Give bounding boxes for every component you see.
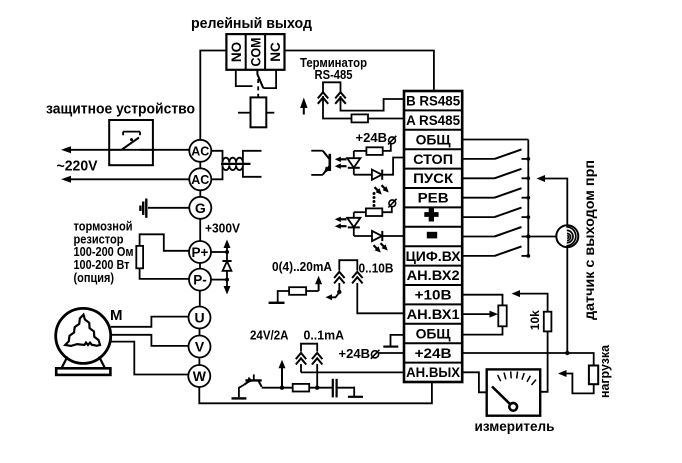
common symbol at ОБЩ row: [391, 335, 405, 347]
svg-text:защитное устройство: защитное устройство: [46, 102, 195, 118]
terminal P+: [189, 241, 211, 263]
svg-text:АН.ВЫХ: АН.ВЫХ: [406, 365, 460, 380]
wire: relay box left lead down to AC terminal: [200, 51, 226, 140]
chevron arrows of terminator: [318, 92, 328, 98]
wire: +24В row to load branch: [462, 353, 594, 366]
ground stub of current source: [269, 302, 285, 304]
wire: transistor collector line: [262, 387, 293, 389]
wire: resistor to +24V terminal point: [383, 144, 391, 151]
wire: opto LED 2 anode to resistor 2: [354, 211, 366, 213]
wire: resistor to node: [306, 290, 319, 292]
dashed link: contacts to relay coil: [257, 79, 259, 97]
wire: resistor to capacitor: [309, 387, 332, 389]
svg-text:M: M: [110, 307, 123, 324]
repetition dots: [373, 192, 376, 195]
wire: terminal column link: [199, 219, 201, 241]
wire: АН.ВЫХ to meter left terminal: [462, 372, 487, 392]
shunt resistor: [289, 287, 306, 295]
wire: opto LED anode to resistor: [354, 150, 367, 152]
switch for РЕВ input: [462, 197, 494, 199]
wire: terminal column link: [199, 291, 201, 307]
indicator LED 1: [354, 174, 372, 176]
svg-text:измеритель: измеритель: [475, 418, 555, 434]
arrow up at output node: [280, 386, 284, 390]
svg-text:ПУСК: ПУСК: [413, 171, 454, 186]
open terminal circle with slash (+24V): [389, 137, 396, 144]
svg-text:COM: COM: [248, 38, 263, 67]
diode on DC bus: [223, 261, 232, 271]
wire: P- to DC bus: [211, 279, 227, 281]
sensor with npn output (circle symbol): [556, 225, 578, 247]
wire: left chevron to terminator resistor: [323, 96, 352, 119]
arrow: RS-485 bus direction: [303, 104, 305, 115]
svg-text:0..10В: 0..10В: [359, 262, 394, 276]
open terminal circle with slash 2: [389, 200, 396, 207]
arrow up at current input: [318, 283, 320, 291]
svg-text:AC: AC: [191, 173, 209, 187]
svg-text:W: W: [193, 368, 207, 384]
light arrows into opto 2: [338, 218, 347, 220]
wire+arrow: ~220V phase line: [66, 149, 189, 151]
wire: right chevron to B RS485: [341, 96, 405, 111]
wire: sensor bottom to +24В line: [566, 247, 568, 353]
switch for - input: [462, 236, 494, 238]
wire: left chevron to junction: [338, 283, 340, 290]
terminal block frame: [404, 91, 462, 382]
svg-text:P-: P-: [193, 272, 207, 287]
wire: +24В terminal point to block: [379, 352, 404, 354]
wire: relay box right lead over to terminal block top (B RS485): [285, 51, 434, 92]
output resistor: [293, 384, 310, 392]
terminal AC 2: [189, 168, 211, 190]
wire: brake resistor top to P+: [140, 234, 189, 251]
svg-text:AC: AC: [191, 144, 209, 158]
svg-text:ОБЩ: ОБЩ: [416, 326, 451, 341]
wire: right chevron to АН.ВХ1: [357, 283, 404, 313]
wire: terminal column link: [199, 263, 201, 269]
relay COM blade: [257, 70, 263, 88]
meter scale ticks: [498, 375, 501, 381]
svg-text:P+: P+: [192, 245, 209, 260]
svg-text:ЦИФ.ВХ: ЦИФ.ВХ: [406, 249, 461, 264]
current limit resistor 2: [366, 208, 382, 216]
wire: resistor 2 to terminal point: [382, 207, 392, 212]
svg-text:0(4)..20mA: 0(4)..20mA: [272, 260, 332, 274]
light emission arrows of LED 1: [375, 187, 380, 192]
open terminal circle with slash (+24В row): [371, 351, 378, 358]
svg-text:V: V: [195, 339, 205, 355]
potentiometer: [498, 305, 506, 326]
10k resistor: [544, 312, 552, 332]
relay contact block NO/COM/NC: [226, 34, 284, 70]
svg-text:ОБЩ: ОБЩ: [416, 132, 451, 147]
wire: LED 2 to − row: [382, 235, 404, 237]
switch for + input: [462, 216, 494, 218]
brake resistor (option): [136, 246, 143, 268]
svg-text:датчик с выходом прп: датчик с выходом прп: [582, 160, 597, 320]
motor base: [62, 357, 106, 369]
svg-text:СТОП: СТОП: [413, 152, 453, 167]
svg-text:U: U: [194, 310, 204, 326]
wire: brake resistor bottom to P-: [140, 268, 189, 279]
wire: pot top to +10В: [462, 295, 502, 306]
svg-text:(опция): (опция): [74, 271, 115, 285]
wire: motor to W: [111, 342, 189, 375]
wire+arrow: sensor output to ПУСК switch bus: [544, 179, 568, 226]
wire: left chevron onto АН.ВЫХ line: [300, 364, 302, 372]
relay NO contact: [236, 70, 253, 86]
relay coil left lead: [238, 112, 251, 114]
wire: bus to sensor: [528, 236, 556, 238]
terminal G: [189, 197, 211, 219]
terminal AC 1: [189, 140, 211, 162]
wire: motor to V: [111, 335, 189, 346]
relay coil right lead: [266, 112, 274, 114]
EMI filter transformer: [211, 151, 222, 163]
svg-text:A RS485: A RS485: [406, 113, 460, 128]
svg-text:+10В: +10В: [415, 288, 452, 303]
svg-text:АН.ВХ1: АН.ВХ1: [407, 307, 461, 322]
wire+arrow: load return: [565, 374, 594, 394]
terminal row label -: [427, 232, 437, 239]
svg-text:+24В: +24В: [356, 130, 388, 145]
common symbol after capacitor: [353, 387, 355, 397]
wire: terminal column link: [199, 329, 201, 336]
svg-text:~220V: ~220V: [57, 159, 98, 175]
light emission arrows of LED 2: [374, 245, 379, 250]
terminal row label +: [424, 208, 438, 222]
opto phototransistor: [311, 150, 323, 152]
switch bus vertical: [527, 140, 529, 256]
switch for СТОП input: [462, 158, 494, 160]
DC bus vertical with end arrows: [226, 246, 228, 288]
wire: LED 1 to СТОП row: [382, 158, 404, 175]
wire: right chevron down to output node: [316, 364, 318, 388]
wire: capacitor to common: [337, 387, 355, 389]
output transistor: [253, 374, 255, 380]
wire: terminal column link: [198, 358, 200, 366]
terminal W: [188, 365, 210, 387]
wire: pot bottom to ОБЩ: [462, 326, 502, 334]
switch for ЦИФ.ВХ input: [462, 255, 494, 257]
breaker switch inside box: [109, 149, 121, 151]
svg-text:+24В: +24В: [339, 346, 371, 361]
svg-text:NO: NO: [229, 42, 244, 62]
svg-text:24V/2A: 24V/2A: [250, 329, 289, 343]
junction dot + small arrow: [337, 290, 341, 294]
wire+arrow: ~220V neutral line: [66, 178, 189, 180]
wire: P+ to DC bus: [211, 251, 227, 253]
svg-text:G: G: [195, 200, 206, 216]
wire: terminal column link: [199, 190, 201, 197]
wire: terminal column link: [199, 162, 201, 169]
svg-text:+24В: +24В: [415, 346, 452, 361]
indicator LED 2: [354, 235, 372, 237]
wire: ОБЩ row to switch bus: [462, 139, 528, 141]
terminal U: [189, 307, 211, 329]
motor M circle: [56, 308, 111, 363]
current limit resistor 1: [366, 147, 382, 155]
terminator resistor: [352, 114, 369, 122]
opto LED 2: [353, 212, 355, 218]
wire+arrow: 10k top toward pot feed: [519, 294, 548, 312]
light arrows into phototransistor: [338, 158, 347, 160]
svg-text:РЕВ: РЕВ: [418, 191, 449, 206]
svg-text:NC: NC: [268, 42, 283, 62]
relay NC contact: [263, 70, 276, 88]
output capacitor: [332, 379, 334, 398]
meter needle: [492, 387, 511, 405]
wire: W down and along bottom to block underside: [199, 382, 432, 403]
motor winding triangle: [65, 315, 100, 346]
terminator measurement bracket: [323, 82, 341, 92]
svg-text:0..1mA: 0..1mA: [304, 329, 345, 343]
load resistor (нагрузка): [589, 366, 598, 385]
svg-text:релейный выход: релейный выход: [191, 16, 312, 32]
opto LED 1: [353, 151, 355, 158]
ground symbol at G: [148, 207, 189, 209]
protective device box: [109, 120, 153, 165]
terminal V: [189, 336, 211, 358]
relay coil: [251, 97, 267, 127]
measurement bracket 0..1mA: [301, 344, 317, 352]
switch for ПУСК input: [462, 177, 494, 179]
wire: terminator resistor to A RS485: [368, 118, 404, 120]
svg-text:АН.ВХ2: АН.ВХ2: [407, 268, 460, 283]
wire: 10k bottom to meter right terminal: [540, 331, 547, 391]
svg-text:B RS485: B RS485: [406, 94, 460, 109]
svg-text:+300V: +300V: [205, 221, 240, 236]
measurement bracket 0..10В: [339, 260, 357, 270]
svg-text:10k: 10k: [530, 310, 542, 331]
svg-text:тормозной: тормозной: [74, 220, 133, 234]
terminal P-: [189, 269, 211, 291]
wire: АН.ВЫХ row line: [301, 371, 404, 373]
wire: motor to U: [111, 317, 189, 327]
wire+arrow: АН.ВХ1 to potentiometer wiper: [462, 313, 490, 315]
meter box: [487, 369, 541, 415]
svg-text:RS-485: RS-485: [315, 68, 353, 82]
svg-text:нагрузка: нагрузка: [597, 344, 612, 398]
